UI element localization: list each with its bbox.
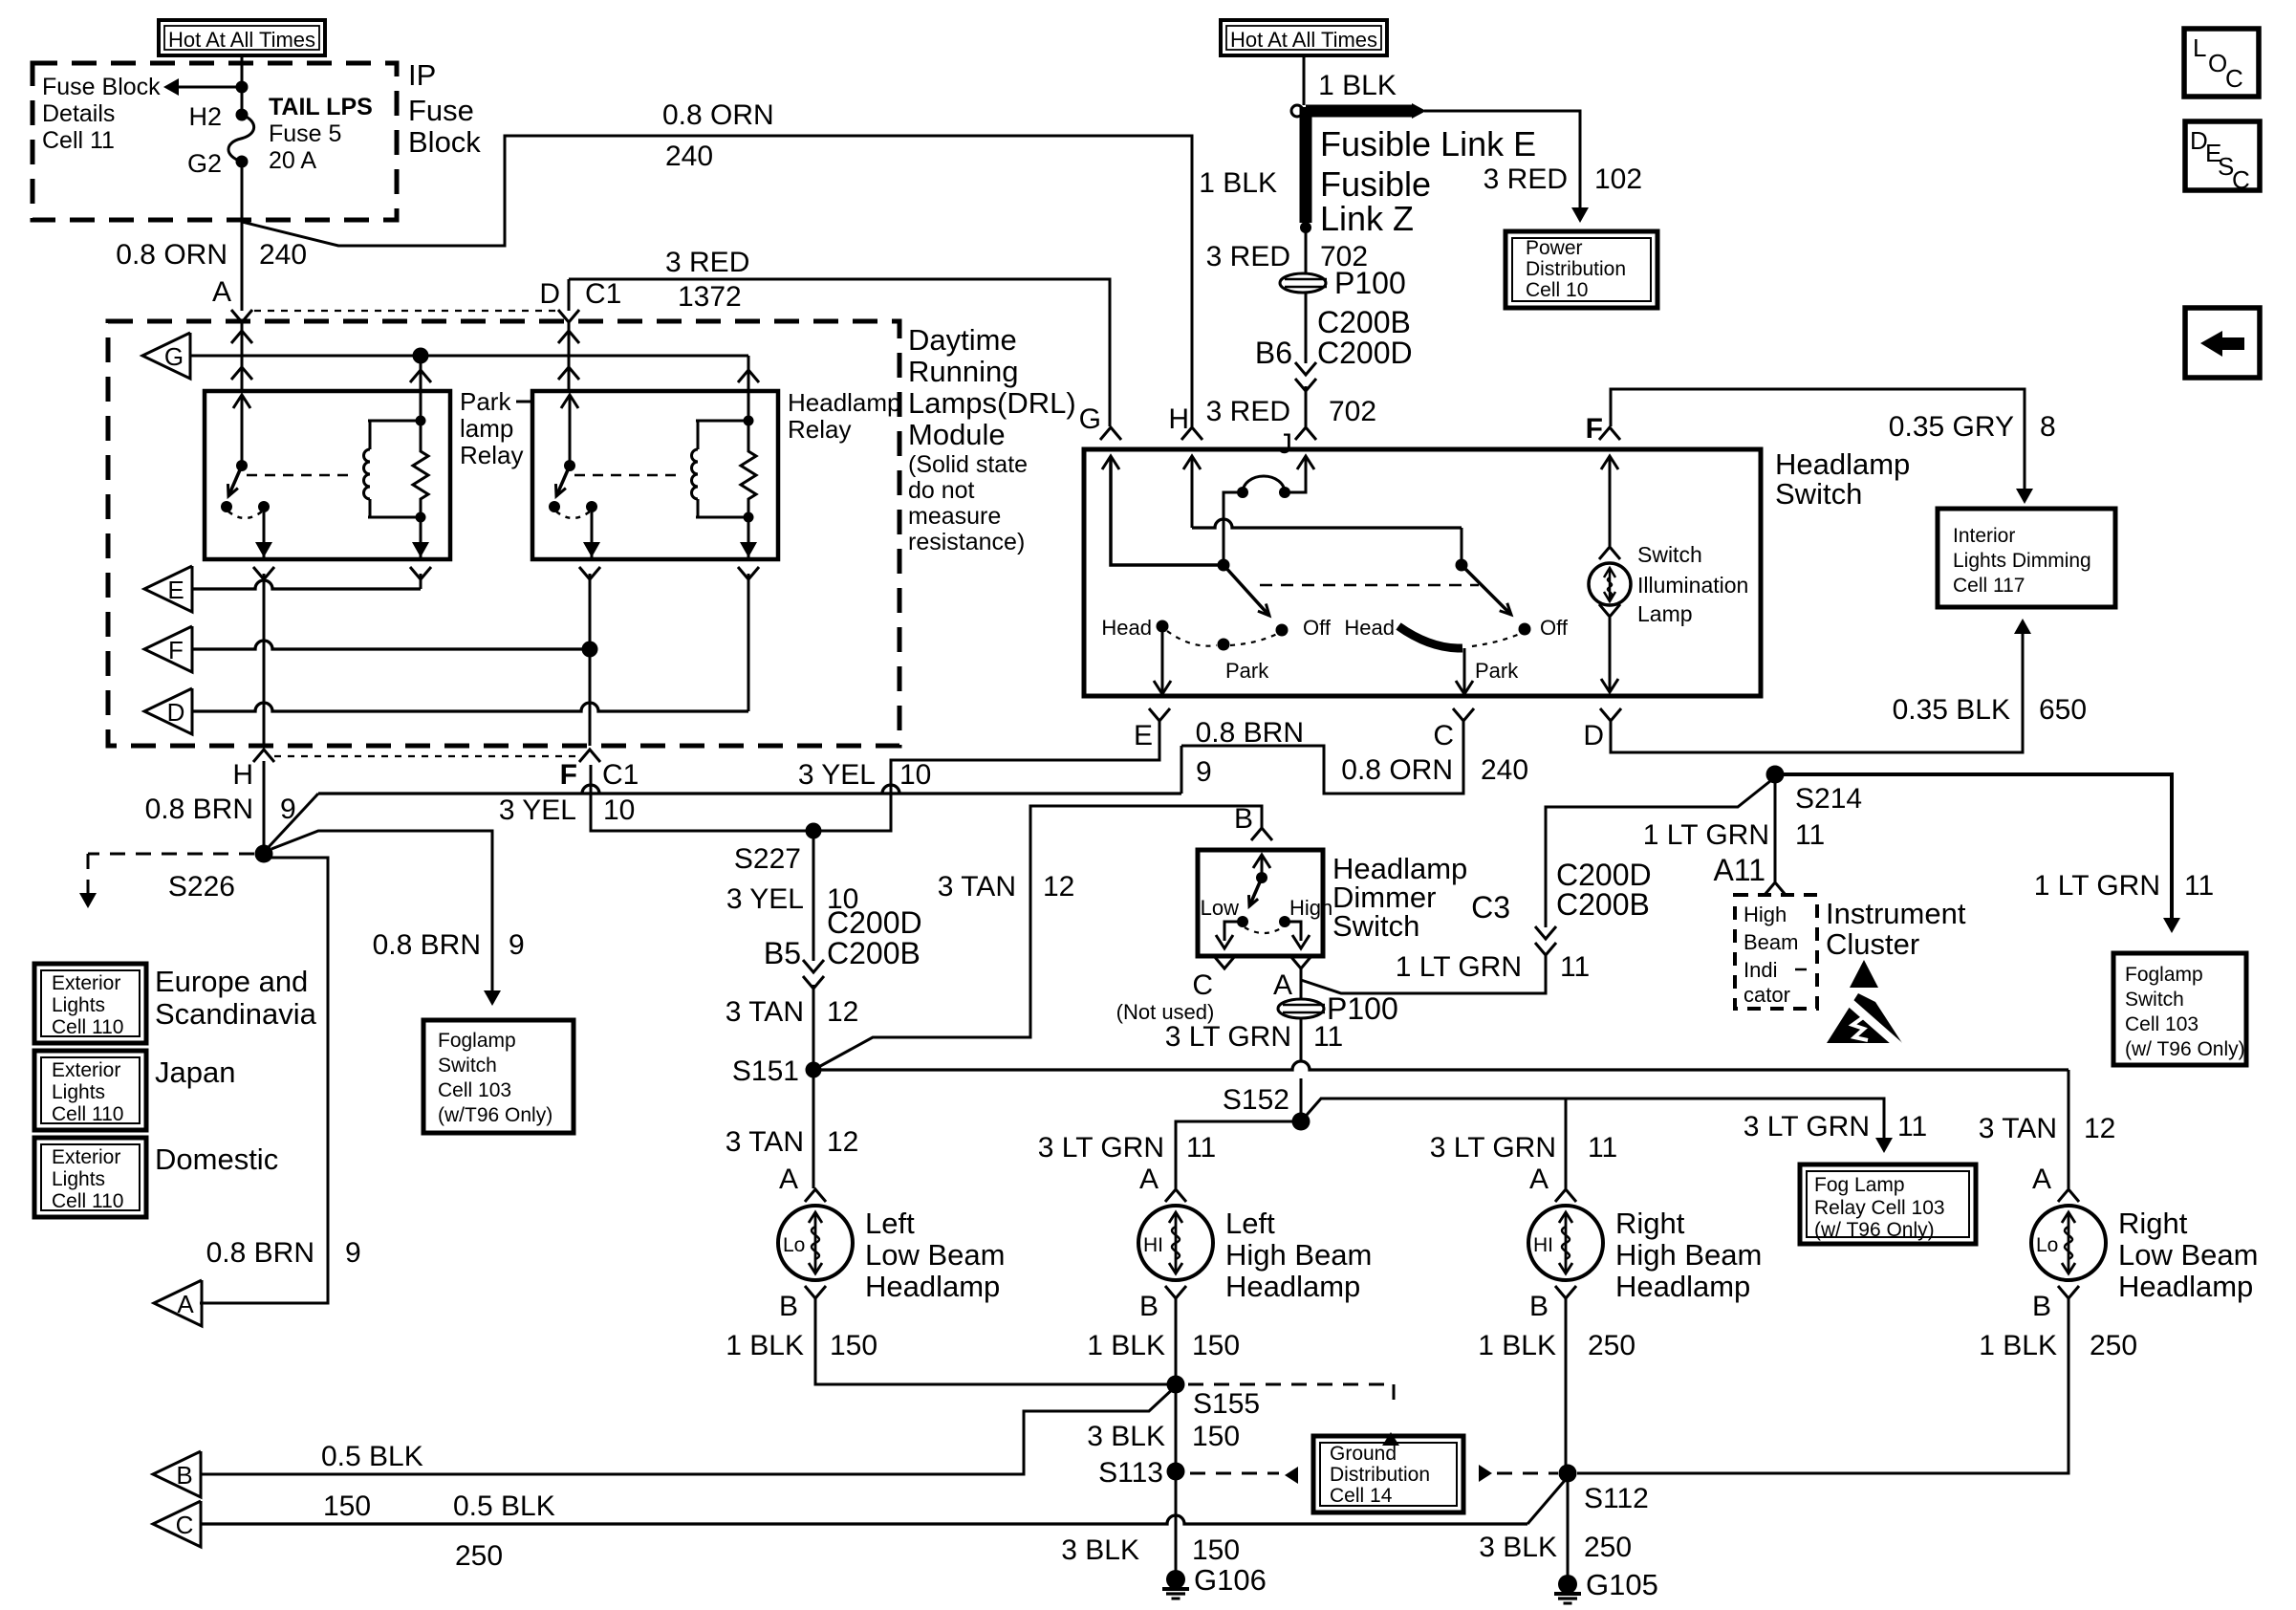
svg-text:1372: 1372 [678,281,742,313]
svg-text:Head: Head [1344,616,1395,640]
svg-text:3 TAN: 3 TAN [938,871,1016,903]
fuse TAIL LPS Fuse 5 20A (element) [236,109,249,121]
wire park relay output to module pin H [263,574,266,746]
svg-text:0.5 BLK: 0.5 BLK [453,1490,555,1522]
connector P100 (pass through) [1280,273,1326,293]
svg-text:9: 9 [345,1237,361,1269]
svg-text:C200D: C200D [827,905,922,940]
left switch Head output to E [1161,631,1164,694]
svg-text:10: 10 [899,759,931,791]
relay K2 headlamp resistor [741,421,756,517]
svg-text:0.8 ORN: 0.8 ORN [1341,754,1453,786]
svg-text:S227: S227 [734,843,801,875]
svg-text:Switch: Switch [1637,542,1702,567]
svg-text:Headlamp: Headlamp [788,388,901,417]
relay K2 headlamp switch arm [556,466,570,496]
wire S226 down to connector A (0.8 BRN 9) [200,858,328,1303]
svg-text:Cell 110: Cell 110 [52,1016,124,1038]
svg-text:150: 150 [323,1490,371,1522]
svg-text:measure: measure [908,503,1001,530]
svg-text:HI: HI [1533,1234,1553,1256]
svg-text:Left: Left [1225,1207,1275,1240]
svg-text:Relay: Relay [460,441,523,469]
svg-text:D: D [167,698,185,727]
svg-text:Right: Right [2118,1207,2188,1240]
svg-text:C: C [2232,165,2250,194]
svg-text:Headlamp: Headlamp [2118,1270,2253,1303]
splice S152 [1292,1113,1310,1131]
svg-text:S226: S226 [168,871,235,903]
svg-text:C3: C3 [1471,890,1510,925]
connector C at dimmer (not used) [1214,956,1235,968]
svg-text:3 LT GRN: 3 LT GRN [1430,1132,1556,1164]
Exterior Lights Cell 110 box (Japan) [34,1051,146,1130]
relay K1 park lamp coil link (dashed) [247,474,356,477]
svg-text:P100: P100 [1334,266,1406,300]
svg-text:A: A [1139,1164,1159,1195]
wire 3 LT GRN 11 to fog lamp relay [1321,1099,1884,1140]
svg-text:0.8 ORN: 0.8 ORN [116,239,227,271]
svg-text:H: H [1168,403,1189,435]
connector B6 C200B/C200D (inline) [1295,362,1316,375]
svg-text:0.8 BRN: 0.8 BRN [373,929,481,961]
svg-text:G: G [1079,403,1101,435]
svg-text:B: B [1234,803,1253,835]
svg-text:Headlamp: Headlamp [1615,1270,1750,1303]
svg-text:Link Z: Link Z [1320,199,1414,238]
svg-text:C: C [1433,720,1454,751]
svg-text:Low Beam: Low Beam [865,1238,1005,1272]
svg-text:(w/T96 Only): (w/T96 Only) [438,1104,552,1126]
switch mechanical link (dashed) [1260,584,1479,587]
relay K1 park lamp contacts [221,501,232,512]
svg-text:Head: Head [1101,616,1152,640]
svg-text:3 YEL: 3 YEL [726,883,804,915]
svg-text:C200D: C200D [1317,336,1413,370]
svg-text:0.35 BLK: 0.35 BLK [1893,694,2010,726]
svg-text:1 LT GRN: 1 LT GRN [1643,819,1769,851]
svg-text:Cell 11: Cell 11 [42,127,115,154]
svg-text:Right: Right [1615,1207,1685,1240]
wire arrow to Fuse Block details [174,86,242,89]
legend box DESC [2185,121,2260,190]
svg-text:150: 150 [830,1330,877,1361]
dashed wire S113 to ground distribution [1190,1472,1279,1475]
dimmer internal common [1253,855,1270,868]
svg-text:650: 650 [2039,694,2087,726]
relay K1 park lamp resistor [413,421,428,517]
svg-text:102: 102 [1594,163,1642,195]
svg-text:0.8 BRN: 0.8 BRN [145,794,253,825]
svg-text:Lights: Lights [52,1168,105,1190]
svg-text:High Beam: High Beam [1225,1238,1372,1272]
svg-text:S214: S214 [1795,783,1862,815]
svg-text:Lights Dimming: Lights Dimming [1953,550,2091,572]
wire 1 BLK 150 left low beam ground to S155 [815,1297,1168,1384]
relay K2 headlamp box [532,391,778,559]
svg-text:0.5 BLK: 0.5 BLK [321,1441,423,1472]
svg-text:3 LT GRN: 3 LT GRN [1165,1021,1291,1053]
svg-text:C: C [176,1511,194,1539]
svg-text:Foglamp: Foglamp [2125,964,2203,986]
svg-text:Headlamp: Headlamp [865,1270,1000,1303]
Fog Lamp Relay Cell 103 box [1800,1164,1976,1244]
thin dashed link A to D/C1 along module top [254,310,556,312]
svg-text:Japan: Japan [155,1055,235,1089]
svg-text:Park: Park [1475,659,1519,683]
switch internal J feed with jumper to left pivot [1297,456,1314,469]
svg-text:C1: C1 [602,759,639,791]
svg-text:H: H [232,759,253,791]
wire headlamp relay output to module pin F/C1 [589,574,592,746]
svg-text:HI: HI [1143,1234,1163,1256]
svg-text:G106: G106 [1194,1563,1267,1597]
svg-text:Low Beam: Low Beam [2118,1238,2258,1272]
svg-text:Fuse 5: Fuse 5 [269,120,341,147]
svg-text:Cell 110: Cell 110 [52,1103,124,1125]
svg-text:B: B [1139,1291,1159,1322]
svg-text:12: 12 [1043,871,1074,903]
legend box back arrow [2185,308,2260,378]
wire 0.8 ORN 240 from switch C to S226 [1181,721,1463,794]
svg-text:A: A [177,1290,194,1318]
dimmer contacts Low High [1237,916,1248,927]
svg-text:Cluster: Cluster [1826,927,1919,961]
splice S112 [1559,1465,1577,1483]
wire D to headlamp relay coil low side [192,703,748,711]
svg-text:3 YEL: 3 YEL [798,759,876,791]
Interior Lights Dimming Cell 117 box [1938,509,2115,607]
connector chevrons below relays [253,567,274,579]
svg-text:Headlamp: Headlamp [1225,1270,1360,1303]
svg-text:1 BLK: 1 BLK [726,1330,804,1361]
svg-text:250: 250 [1584,1532,1632,1563]
connector B at left low beam headlamp [805,1286,826,1298]
right switch arm [1462,565,1511,615]
svg-text:8: 8 [2040,411,2056,443]
svg-text:12: 12 [2084,1113,2115,1144]
svg-text:10: 10 [603,794,635,826]
wire 1 LT GRN 11 C3 to S214 [1546,777,1775,927]
lamp left low beam headlamp [778,1206,853,1280]
wire D/C1 input into headlamp relay [568,322,571,391]
svg-text:B: B [176,1461,192,1490]
relay K2 headlamp coil bus [696,420,750,423]
relay K2 headlamp contacts [549,501,560,512]
connector B5 C200D/C200B (inline) [803,960,824,972]
svg-text:3 BLK: 3 BLK [1087,1421,1165,1452]
svg-text:Off: Off [1540,616,1569,640]
wire 1 LT GRN 11 branch to C3 [1301,954,1546,993]
svg-text:Park: Park [1225,659,1269,683]
svg-text:High: High [1289,896,1332,920]
svg-text:0.8 ORN: 0.8 ORN [662,99,774,131]
wire F bus [192,641,590,649]
svg-text:3 LT GRN: 3 LT GRN [1744,1111,1870,1142]
node: branch to fuse block details [236,81,249,94]
headlamp switch box [1084,449,1761,696]
svg-text:250: 250 [1588,1330,1635,1361]
IP Fuse Block dashed outline [32,63,397,220]
svg-text:(w/ T96 Only): (w/ T96 Only) [1814,1219,1935,1241]
junction on G bus to park relay coil [413,348,429,364]
svg-text:High: High [1744,903,1787,926]
svg-text:Headlamp: Headlamp [1775,447,1910,481]
dimmer low output [1224,922,1243,941]
svg-text:12: 12 [827,1126,858,1158]
svg-text:C: C [2225,64,2243,93]
svg-text:3 TAN: 3 TAN [1979,1113,2057,1144]
wire 3 YEL 10 S227 down through C200D to S151 [812,831,815,961]
left switch arm [1224,565,1269,616]
wire G bus down to headlamp relay coil [747,356,750,391]
svg-text:A: A [1529,1164,1549,1195]
svg-text:Fuse Block: Fuse Block [42,74,161,100]
svg-text:TAIL LPS: TAIL LPS [269,94,373,120]
svg-text:Interior: Interior [1953,525,2015,547]
connector B at dimmer switch [1251,828,1272,840]
svg-text:Relay: Relay [788,415,851,444]
wire 3 BLK 250 S112 to G105 [1567,1473,1570,1577]
svg-text:B: B [1529,1291,1549,1322]
svg-text:lamp: lamp [460,414,513,443]
connector D below switch [1600,708,1621,721]
svg-text:Illumination: Illumination [1637,573,1748,598]
left switch pivot [1218,559,1230,572]
power label box: Hot At All Times (left) [159,20,325,55]
connector H below module [253,750,274,762]
svg-text:Lights: Lights [52,1081,105,1103]
svg-text:11: 11 [1186,1132,1216,1164]
svg-text:240: 240 [259,239,307,271]
svg-text:3 RED: 3 RED [1206,241,1290,272]
svg-text:A: A [1273,969,1292,1001]
svg-text:High Beam: High Beam [1615,1238,1762,1272]
ESD sensitivity symbol [1850,960,1878,988]
wire 3 LT GRN 11 S152 to right high beam and fog lamp relay [1301,1099,1566,1188]
module pin G triangle [142,333,190,379]
svg-text:11: 11 [1560,951,1590,983]
svg-text:Cell 110: Cell 110 [52,1190,124,1212]
svg-text:702: 702 [1329,396,1376,427]
svg-text:Fuse: Fuse [408,94,474,127]
svg-text:B5: B5 [764,936,801,970]
svg-text:Fog Lamp: Fog Lamp [1814,1174,1905,1196]
wire 0.35 GRY 8 from F to interior lights dimming [1611,389,2025,491]
svg-text:J: J [1278,428,1292,460]
svg-text:(Solid state: (Solid state [908,451,1028,478]
svg-text:Distribution: Distribution [1526,258,1626,280]
wire 1 BLK 250 right low beam ground to S112 [1577,1297,2069,1473]
svg-text:resistance): resistance) [908,529,1025,555]
svg-text:1 BLK: 1 BLK [1318,70,1397,101]
svg-text:G2: G2 [187,149,222,178]
svg-text:Cell 10: Cell 10 [1526,279,1588,301]
svg-text:Beam: Beam [1744,930,1798,954]
svg-text:Distribution: Distribution [1330,1464,1430,1486]
Foglamp Switch Cell 103 box (left) [423,1020,574,1133]
svg-text:F: F [560,759,577,791]
svg-text:S151: S151 [732,1055,799,1087]
svg-text:Lamp: Lamp [1637,601,1693,626]
wire 1 BLK from power [1303,55,1306,105]
right switch Park output to C [1463,648,1466,694]
wire fuse output down to node A (0.8 ORN 240) [241,162,244,311]
svg-text:11: 11 [1588,1132,1617,1164]
svg-text:150: 150 [1192,1330,1240,1361]
svg-text:A: A [779,1164,798,1195]
svg-text:20 A: 20 A [269,147,316,174]
triangle connector C (bottom left) [153,1501,201,1547]
relay K2 headlamp switched output [591,507,594,557]
relay K2 headlamp coil [697,421,700,449]
svg-text:250: 250 [2090,1330,2137,1361]
svg-text:Lo: Lo [783,1234,805,1256]
svg-text:1 BLK: 1 BLK [1979,1330,2057,1361]
svg-text:Daytime: Daytime [908,323,1017,357]
svg-text:0.35 GRY: 0.35 GRY [1889,411,2014,443]
svg-text:S152: S152 [1223,1084,1289,1116]
svg-text:11: 11 [1313,1021,1343,1053]
splice S151 [806,1062,822,1078]
lamp right high beam headlamp [1528,1206,1603,1280]
svg-text:3 BLK: 3 BLK [1479,1532,1557,1563]
switch internal H feed to right pivot [1183,456,1201,469]
svg-text:0.8 BRN: 0.8 BRN [206,1237,314,1269]
svg-text:Fusible Link E: Fusible Link E [1320,124,1536,163]
wire 3 YEL 10 switch E to S227 and F/C1 [591,721,1159,831]
svg-text:B: B [779,1291,798,1322]
ground G105 [1558,1575,1577,1594]
svg-text:B: B [2032,1291,2051,1322]
fusible link E (thick bar) [1306,105,1413,118]
wire from dimmer A through P100 [1300,968,1303,1000]
module pin F triangle [144,626,192,672]
relay K1 park lamp switch common [241,396,244,466]
svg-text:Lo: Lo [2036,1234,2058,1256]
svg-text:1 LT GRN: 1 LT GRN [2034,870,2160,902]
wire 3 BLK 150 S113 to G106 [1175,1471,1178,1573]
Foglamp Switch Cell 103 box (right) [2113,953,2246,1065]
headlamp dimmer switch box [1198,850,1323,956]
svg-text:Cell 117: Cell 117 [1953,575,2025,597]
power label box: Hot At All Times (right) [1221,20,1387,55]
svg-text:Running: Running [908,355,1018,388]
svg-text:A: A [2032,1164,2051,1195]
svg-text:G105: G105 [1586,1568,1658,1601]
Exterior Lights Cell 110 box (Europe) [34,964,146,1043]
wire 3 BLK 150 S155 to S113 [1175,1384,1178,1471]
svg-text:D: D [539,278,560,310]
svg-text:Exterior: Exterior [52,1146,120,1168]
dimmer arm [1249,878,1262,906]
svg-text:F: F [168,636,184,664]
svg-text:Ground: Ground [1330,1443,1397,1465]
splice S113 [1167,1463,1185,1481]
svg-text:S112: S112 [1584,1483,1649,1514]
svg-text:11: 11 [1897,1111,1927,1142]
svg-text:0.8 BRN: 0.8 BRN [1196,717,1304,749]
svg-text:Foglamp: Foglamp [438,1030,516,1052]
svg-text:Block: Block [408,125,481,159]
wire S214 to instrument cluster A11 [1774,774,1777,881]
wire 0.5 BLK 250 from C to S112 [201,1515,1527,1524]
svg-text:150: 150 [1192,1534,1240,1566]
svg-text:1 LT GRN: 1 LT GRN [1396,951,1522,983]
svg-text:G: G [164,342,184,371]
svg-text:Lights: Lights [52,994,105,1016]
svg-text:IP: IP [408,58,436,92]
svg-text:3 TAN: 3 TAN [726,996,804,1028]
wire 3 TAN 12 S151 bus to right low beam [813,1061,2069,1070]
svg-text:C200B: C200B [827,936,921,970]
svg-text:Exterior: Exterior [52,1059,120,1081]
svg-text:3 RED: 3 RED [1484,163,1568,195]
Power Distribution Cell 10 box [1505,231,1657,308]
wire 0.35 BLK 650 from D to interior lights dimming [1611,631,2023,752]
dashed wire S155 to ground distribution [1188,1383,1394,1386]
svg-text:240: 240 [1481,754,1528,786]
svg-text:Hot At All Times: Hot At All Times [168,28,315,52]
relay K2 headlamp coil link (dashed) [574,474,683,477]
module G bus wire [190,355,748,358]
svg-text:9: 9 [280,794,296,825]
wire 3 LT GRN 11 dimmer A to S152 [1300,1018,1303,1061]
svg-text:3 LT GRN: 3 LT GRN [1038,1132,1164,1164]
svg-text:C1: C1 [585,278,621,310]
svg-text:Details: Details [42,100,115,127]
svg-text:1 BLK: 1 BLK [1478,1330,1556,1361]
svg-text:1 BLK: 1 BLK [1087,1330,1165,1361]
svg-text:12: 12 [827,996,858,1028]
relay K1 park lamp coil bus [368,420,422,423]
dimmer high output [1285,922,1301,941]
connector B at left high beam headlamp [1165,1286,1186,1298]
svg-text:Power: Power [1526,237,1583,259]
connector B at right low beam headlamp [2058,1286,2079,1298]
svg-text:150: 150 [1192,1421,1240,1452]
wire A feed left low beam from S151 [812,1070,815,1188]
connector B at right high beam headlamp [1555,1286,1576,1298]
wire 0.8 BRN 9 from module H to S226 [263,761,266,846]
connector A at left low beam headlamp [805,1189,826,1202]
legend box LOC [2184,29,2259,97]
module pin D triangle [144,688,192,734]
svg-text:Off: Off [1303,616,1332,640]
high beam indicator dashed box [1735,895,1817,1009]
connector A at right high beam headlamp [1555,1189,1576,1202]
relay K1 park lamp box [205,391,450,559]
svg-text:Indi: Indi [1744,958,1777,982]
connector C below switch [1453,708,1474,721]
svg-text:Lamps(DRL): Lamps(DRL) [908,386,1076,420]
svg-text:3 TAN: 3 TAN [726,1126,804,1158]
svg-text:Switch: Switch [438,1055,497,1077]
svg-text:11: 11 [1795,819,1825,851]
connector C3 C200D/C200B (inline) [1535,926,1556,939]
svg-text:3 RED: 3 RED [1206,396,1290,427]
svg-text:A: A [212,276,231,308]
splice S226 [255,845,273,863]
svg-text:cator: cator [1744,983,1790,1007]
relay K1 park lamp switched output [263,507,266,557]
wire 1 BLK 150 left high beam ground [1175,1297,1178,1377]
wire G bus down to park relay coil [420,356,422,391]
connector A at right low beam headlamp [2058,1189,2079,1202]
right switch pivot [1456,559,1468,572]
dashed wire ground distribution to S112 [1479,1465,1492,1482]
svg-text:Cell 14: Cell 14 [1330,1485,1393,1507]
